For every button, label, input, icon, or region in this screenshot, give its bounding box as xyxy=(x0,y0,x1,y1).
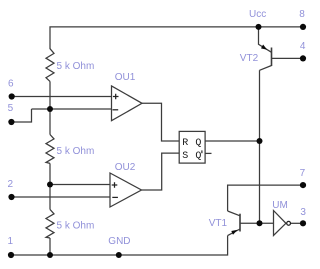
wire OU2 output to S input xyxy=(142,153,180,190)
wire pin 6 to OU1 + xyxy=(12,96,112,98)
wire Q-prime stub xyxy=(205,152,211,154)
svg-text:Ucc: Ucc xyxy=(249,9,266,20)
node GND mid dot xyxy=(116,252,122,258)
svg-text:5 k Ohm: 5 k Ohm xyxy=(57,146,95,157)
wire divider node to OU1 - xyxy=(32,108,112,110)
svg-text:GND: GND xyxy=(108,236,130,247)
svg-text:8: 8 xyxy=(299,9,305,20)
svg-text:VT1: VT1 xyxy=(209,218,228,229)
transistor VT2 xyxy=(271,48,273,67)
svg-text:3: 3 xyxy=(300,207,306,218)
svg-text:S: S xyxy=(182,151,188,162)
wire pin 2 to OU2 - xyxy=(12,196,111,198)
svg-text:5: 5 xyxy=(8,103,14,114)
resistor R3 xyxy=(46,209,54,238)
svg-text:7: 7 xyxy=(300,168,306,179)
svg-text:UM: UM xyxy=(272,200,288,211)
resistor R1 xyxy=(46,49,54,82)
wire GND rail xyxy=(11,236,228,255)
transistor VT1 xyxy=(239,214,241,232)
svg-text:OU2: OU2 xyxy=(115,162,136,173)
wire R3 to GND xyxy=(49,238,51,255)
wire Ucc top rail xyxy=(50,27,303,49)
wire VT1 base xyxy=(240,222,274,224)
svg-text:2: 2 xyxy=(8,179,14,190)
wire UM output to pin 3 xyxy=(291,222,304,224)
svg-text:6: 6 xyxy=(8,79,14,90)
wire pin 5 to divider node xyxy=(12,109,32,122)
wire VT2 base to pin 4 xyxy=(272,57,304,59)
pin 6 dot xyxy=(9,93,15,99)
wire divider R1-R2 xyxy=(49,81,51,134)
resistor R2 xyxy=(46,135,54,164)
svg-text:Q: Q xyxy=(195,138,201,149)
arrow VT1 emitter xyxy=(231,230,237,235)
node divider upper dot xyxy=(47,106,53,112)
node GND chain dot xyxy=(47,252,53,258)
pin 2 dot xyxy=(8,194,14,200)
node divider lower dot xyxy=(47,182,53,188)
wire divider R2-R3 xyxy=(49,163,51,209)
svg-text:4: 4 xyxy=(300,41,306,52)
svg-text:1: 1 xyxy=(8,236,14,247)
wire Q output xyxy=(205,140,259,142)
pin 7 dot xyxy=(300,182,306,188)
pin 5 dot xyxy=(8,119,14,125)
op-amp OU2 xyxy=(110,173,142,207)
node VT1 base dot xyxy=(257,220,263,226)
pin 3 dot xyxy=(300,220,306,226)
flip-flop U1 box xyxy=(179,131,205,163)
svg-text:VT2: VT2 xyxy=(240,53,259,64)
op-amp OU1 xyxy=(112,86,143,121)
svg-text:Q: Q xyxy=(195,151,201,162)
amplifier UM xyxy=(274,211,286,236)
wire divider node to OU2 + xyxy=(50,184,110,186)
node Q to bus dot xyxy=(257,138,263,144)
wire pin 7 to VT1 collector xyxy=(228,185,303,211)
svg-text:R: R xyxy=(182,138,188,149)
pin 1 dot xyxy=(8,252,14,258)
wire OU1 output to R input xyxy=(142,103,179,141)
pin 8 dot xyxy=(300,24,306,30)
node Ucc dot xyxy=(256,24,262,30)
svg-text:OU1: OU1 xyxy=(115,72,136,83)
svg-text:5 k Ohm: 5 k Ohm xyxy=(57,61,95,72)
pin 4 dot xyxy=(300,55,306,61)
arrow VT2 emitter xyxy=(261,45,267,50)
wire Q bus vertical xyxy=(259,70,261,223)
svg-text:5 k Ohm: 5 k Ohm xyxy=(57,221,95,232)
